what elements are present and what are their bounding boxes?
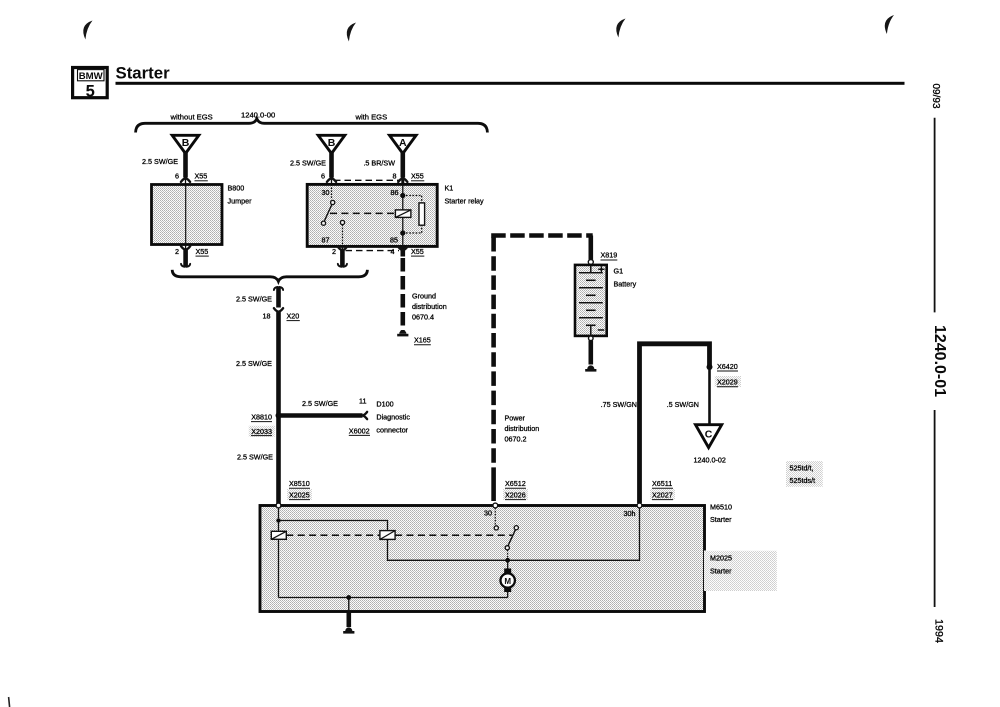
svg-text:without EGS: without EGS [170, 113, 213, 122]
svg-text:Starter: Starter [710, 567, 732, 576]
svg-text:86: 86 [391, 188, 399, 197]
svg-text:Battery: Battery [614, 280, 637, 289]
svg-text:B800: B800 [228, 184, 245, 193]
svg-text:X2033: X2033 [251, 427, 272, 436]
svg-text:X8510: X8510 [289, 479, 310, 488]
svg-text:1240.0-02: 1240.0-02 [694, 456, 726, 465]
svg-text:X55: X55 [196, 247, 209, 256]
svg-text:0670.4: 0670.4 [412, 313, 434, 322]
svg-text:Starter: Starter [116, 63, 171, 82]
svg-text:with EGS: with EGS [355, 113, 388, 122]
svg-text:X2026: X2026 [505, 490, 526, 499]
svg-text:distribution: distribution [505, 424, 540, 433]
svg-text:M6510: M6510 [710, 503, 732, 512]
svg-text:X2025: X2025 [289, 490, 310, 499]
svg-text:Starter: Starter [710, 515, 732, 524]
svg-text:4: 4 [391, 247, 395, 256]
svg-text:.5 SW/GN: .5 SW/GN [667, 400, 699, 409]
svg-text:11: 11 [359, 396, 366, 405]
svg-text:C: C [705, 429, 713, 441]
svg-text:X6511: X6511 [652, 479, 672, 488]
svg-text:2.5 SW/GE: 2.5 SW/GE [236, 359, 272, 368]
svg-text:BMW: BMW [79, 71, 104, 82]
svg-text:connector: connector [376, 426, 408, 435]
svg-text:G1: G1 [614, 267, 624, 276]
svg-text:2.5 SW/GE: 2.5 SW/GE [302, 399, 338, 408]
svg-text:30: 30 [322, 188, 330, 197]
svg-text:D100: D100 [376, 400, 393, 409]
svg-text:X20: X20 [287, 312, 300, 321]
svg-text:B: B [182, 137, 190, 149]
svg-text:09/93: 09/93 [930, 83, 941, 108]
svg-text:2: 2 [175, 247, 179, 256]
svg-text:distribution: distribution [412, 302, 447, 311]
svg-text:525td/t,: 525td/t, [790, 464, 814, 473]
svg-text:X6002: X6002 [349, 426, 370, 435]
svg-text:18: 18 [263, 312, 271, 321]
svg-text:1240.0-00: 1240.0-00 [241, 111, 275, 120]
svg-text:X2029: X2029 [717, 378, 738, 387]
svg-text:85: 85 [390, 235, 398, 244]
svg-text:Power: Power [505, 413, 526, 422]
svg-text:1994: 1994 [933, 619, 945, 643]
svg-text:M: M [504, 577, 511, 586]
svg-text:2.5 SW/GE: 2.5 SW/GE [236, 295, 272, 304]
svg-text:X55: X55 [411, 172, 424, 181]
svg-text:A: A [399, 137, 407, 149]
svg-text:.5 BR/SW: .5 BR/SW [363, 159, 395, 168]
svg-text:30: 30 [484, 508, 492, 517]
svg-text:Diagnostic: Diagnostic [376, 413, 410, 422]
svg-text:Jumper: Jumper [228, 197, 253, 206]
svg-text:6: 6 [321, 172, 325, 181]
svg-text:6: 6 [175, 172, 179, 181]
svg-text:2.5 SW/GE: 2.5 SW/GE [237, 453, 273, 462]
svg-text:2.5 SW/GE: 2.5 SW/GE [142, 157, 178, 166]
svg-text:1240.0-01: 1240.0-01 [931, 325, 948, 397]
svg-text:30h: 30h [624, 509, 636, 518]
svg-text:X6512: X6512 [505, 479, 526, 488]
svg-text:X8810: X8810 [251, 412, 272, 421]
svg-text:0670.2: 0670.2 [505, 434, 527, 443]
svg-text:2: 2 [332, 247, 336, 256]
svg-text:X55: X55 [411, 247, 424, 256]
svg-text:X2027: X2027 [652, 490, 673, 499]
svg-text:525tds/t: 525tds/t [790, 476, 816, 485]
svg-text:Starter relay: Starter relay [445, 197, 485, 206]
svg-text:X55: X55 [195, 172, 208, 181]
svg-text:.75 SW/GN: .75 SW/GN [601, 400, 637, 409]
svg-text:X6420: X6420 [717, 362, 738, 371]
svg-text:B: B [328, 137, 336, 149]
svg-text:M2025: M2025 [710, 554, 732, 563]
svg-text:Ground: Ground [412, 292, 436, 301]
svg-text:5: 5 [86, 82, 95, 100]
svg-text:X819: X819 [601, 251, 618, 260]
svg-text:K1: K1 [445, 184, 454, 193]
svg-text:X165: X165 [414, 336, 431, 345]
svg-text:2.5 SW/GE: 2.5 SW/GE [290, 159, 326, 168]
svg-text:87: 87 [322, 235, 330, 244]
svg-text:8: 8 [393, 172, 397, 181]
